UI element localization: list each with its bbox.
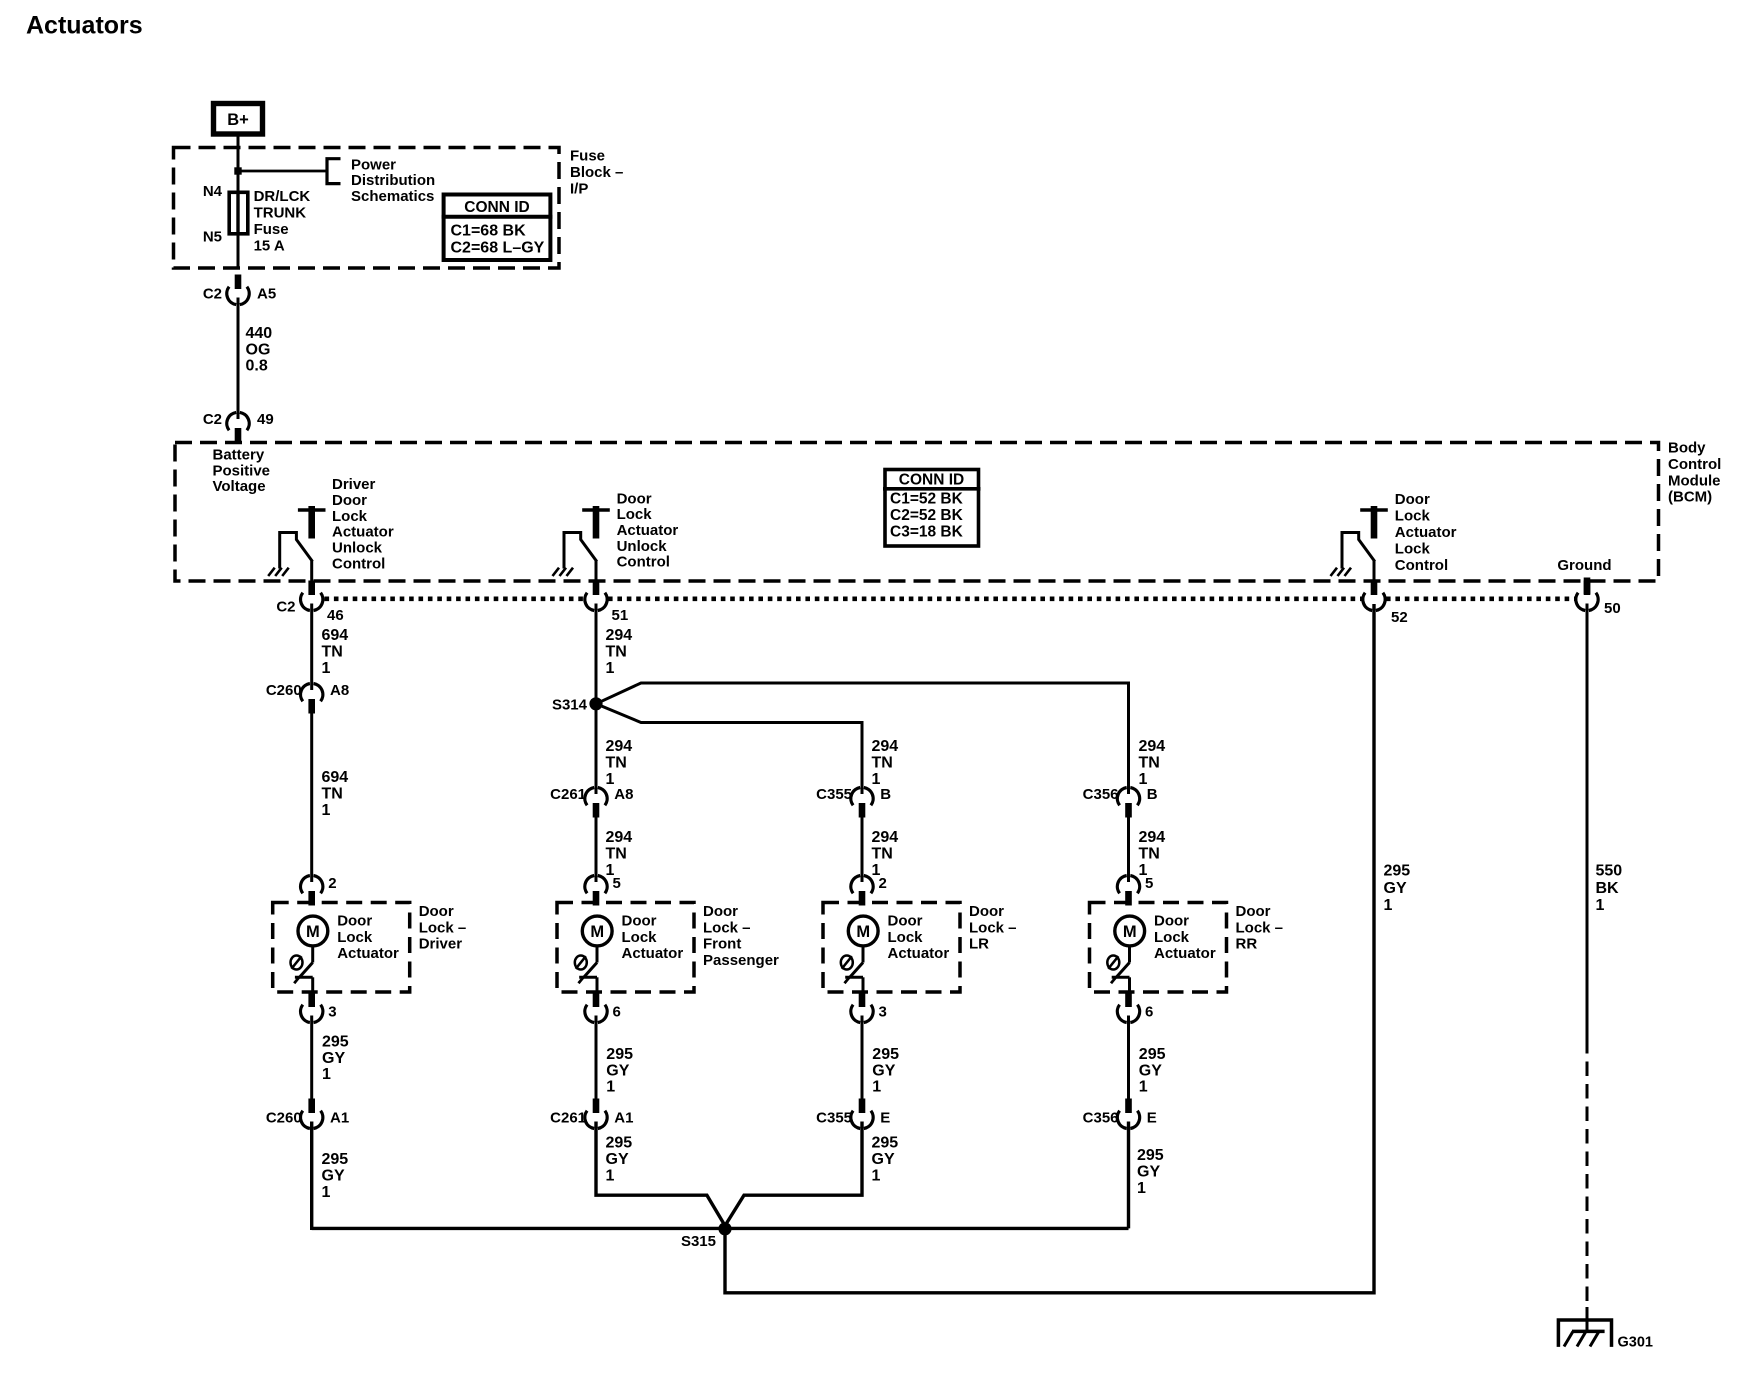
svg-text:TN: TN [606, 755, 627, 772]
svg-text:Lock –: Lock – [1236, 919, 1284, 936]
svg-text:294: 294 [1139, 829, 1166, 846]
svg-text:Door: Door [888, 913, 923, 930]
svg-text:15 A: 15 A [254, 238, 285, 255]
svg-text:E: E [880, 1110, 890, 1127]
connector pin 6 (door lock actuator output) [593, 993, 600, 1008]
svg-text:GY: GY [1139, 1062, 1162, 1079]
wire 550 BK 1 (pin 50 to G301) [1586, 604, 1589, 1040]
svg-text:295: 295 [322, 1034, 349, 1051]
wire switch to box edge [311, 977, 314, 992]
svg-text:5: 5 [1145, 875, 1153, 892]
svg-text:GY: GY [606, 1151, 629, 1168]
svg-text:Actuator: Actuator [622, 945, 684, 962]
svg-text:S315: S315 [681, 1233, 716, 1250]
splice S314 [589, 697, 602, 710]
wire fuse to connector C2 A5 [237, 234, 240, 269]
svg-text:694: 694 [322, 769, 349, 786]
wire motor to switch [311, 946, 314, 963]
svg-text:TN: TN [872, 846, 893, 863]
svg-text:C260: C260 [266, 682, 302, 699]
svg-text:Control: Control [1668, 456, 1721, 473]
svg-text:294: 294 [872, 738, 899, 755]
svg-text:Lock: Lock [1395, 507, 1431, 524]
svg-text:Lock: Lock [1395, 541, 1431, 558]
svg-text:C355: C355 [816, 786, 852, 803]
svg-text:Control: Control [1395, 557, 1448, 574]
svg-text:295: 295 [606, 1046, 633, 1063]
wire 295 GY 1 (LR out) [861, 1016, 864, 1100]
svg-text:1: 1 [872, 771, 881, 788]
svg-text:295: 295 [1137, 1147, 1164, 1164]
svg-text:Positive: Positive [213, 462, 271, 479]
svg-text:Door: Door [1154, 913, 1189, 930]
svg-text:Control: Control [617, 554, 670, 571]
svg-text:C356: C356 [1083, 1110, 1119, 1127]
wire C261 A1 to S315 [596, 1122, 726, 1227]
connector pin 2 (door lock actuator input) [859, 891, 866, 906]
switch blade with position indicator [1107, 956, 1119, 970]
wire motor to switch [862, 946, 865, 963]
svg-text:1: 1 [872, 1079, 881, 1096]
wire switch to box edge [596, 977, 599, 992]
svg-text:294: 294 [872, 829, 899, 846]
connector C356 pin E [1125, 1099, 1132, 1114]
svg-text:295: 295 [322, 1151, 349, 1168]
svg-text:GY: GY [1137, 1164, 1160, 1181]
svg-text:3: 3 [879, 1004, 887, 1021]
svg-text:1: 1 [322, 660, 331, 677]
svg-text:CONN ID: CONN ID [464, 199, 529, 216]
svg-text:Unlock: Unlock [332, 540, 383, 557]
connector C2 pin 46 [308, 581, 315, 596]
svg-text:5: 5 [613, 875, 621, 892]
svg-text:295: 295 [1139, 1046, 1166, 1063]
svg-text:Unlock: Unlock [617, 538, 668, 555]
svg-text:TN: TN [1139, 846, 1160, 863]
svg-text:C2=68 L–GY: C2=68 L–GY [451, 240, 545, 257]
wire switch to box edge [1128, 977, 1131, 992]
motor M [582, 916, 612, 946]
svg-text:C356: C356 [1083, 786, 1119, 803]
svg-text:(BCM): (BCM) [1668, 489, 1712, 506]
wire S314 branch to C356 (RR) [596, 683, 1129, 794]
svg-text:3: 3 [328, 1004, 336, 1021]
switch blade with position indicator [291, 956, 303, 970]
svg-text:Ground: Ground [1557, 557, 1611, 574]
connector C2 pin A5 [235, 275, 242, 290]
svg-text:50: 50 [1604, 600, 1621, 617]
svg-text:Passenger: Passenger [703, 952, 779, 969]
svg-text:Door: Door [969, 903, 1004, 920]
svg-text:A1: A1 [614, 1110, 633, 1127]
svg-text:C1=68 BK: C1=68 BK [451, 223, 527, 240]
svg-text:C355: C355 [816, 1110, 852, 1127]
wire 694 TN 1 (pin 46 to C260 A8) [310, 604, 313, 691]
svg-text:Actuator: Actuator [617, 522, 679, 539]
svg-text:Door: Door [617, 490, 652, 507]
wire motor to switch [1128, 946, 1131, 963]
svg-text:M: M [1123, 923, 1137, 941]
svg-text:GY: GY [872, 1151, 895, 1168]
svg-text:M: M [856, 923, 870, 941]
svg-text:A1: A1 [330, 1110, 349, 1127]
svg-text:CONN ID: CONN ID [899, 472, 964, 489]
svg-text:DR/LCK: DR/LCK [254, 188, 311, 205]
svg-text:B: B [1147, 786, 1158, 803]
svg-text:Block –: Block – [570, 164, 623, 181]
svg-text:Door: Door [419, 903, 454, 920]
svg-text:Lock –: Lock – [419, 919, 467, 936]
svg-text:Door: Door [337, 913, 372, 930]
svg-text:G301: G301 [1618, 1335, 1653, 1351]
svg-text:Voltage: Voltage [213, 478, 266, 495]
door lock actuator unlock control driver [582, 508, 610, 511]
svg-text:C2=52 BK: C2=52 BK [890, 507, 964, 524]
svg-text:Actuator: Actuator [337, 945, 399, 962]
connector C2 pin 49 [235, 428, 242, 443]
fuse block I/P dashed box [174, 148, 560, 269]
svg-text:GY: GY [322, 1050, 345, 1067]
svg-text:1: 1 [1137, 1180, 1146, 1197]
driver door lock actuator unlock control driver [298, 508, 326, 511]
CONN ID table (BCM) [885, 470, 979, 547]
svg-text:Door: Door [703, 903, 738, 920]
B+ power symbol [214, 104, 263, 135]
svg-text:1: 1 [872, 1168, 881, 1185]
svg-text:C3=18 BK: C3=18 BK [890, 524, 964, 541]
svg-text:TN: TN [1139, 755, 1160, 772]
svg-text:1: 1 [1384, 897, 1393, 914]
svg-text:1: 1 [606, 1079, 615, 1096]
svg-text:TN: TN [606, 846, 627, 863]
ground stub inside BCM [1584, 578, 1591, 595]
svg-text:295: 295 [606, 1135, 633, 1152]
svg-text:Lock: Lock [1154, 929, 1190, 946]
wire C261 A8 to front passenger actuator [595, 817, 598, 882]
wire C356 B to RR actuator [1127, 817, 1130, 882]
connector pin 3 (door lock actuator output) [859, 993, 866, 1008]
svg-text:Power: Power [351, 157, 396, 174]
junction node on B+ feed [234, 167, 241, 174]
svg-text:1: 1 [606, 771, 615, 788]
svg-text:Driver: Driver [419, 936, 463, 953]
svg-text:Door: Door [622, 913, 657, 930]
svg-text:N5: N5 [203, 229, 222, 246]
svg-text:B+: B+ [227, 111, 249, 129]
svg-text:LR: LR [969, 936, 989, 953]
connector pin 51 [593, 581, 600, 596]
svg-text:A5: A5 [257, 286, 276, 303]
splice S315 [718, 1222, 731, 1235]
svg-text:A8: A8 [330, 682, 349, 699]
svg-text:Lock: Lock [888, 929, 924, 946]
svg-text:Fuse: Fuse [570, 148, 605, 165]
connector pin 5 (door lock actuator input) [593, 891, 600, 906]
svg-text:Control: Control [332, 556, 385, 573]
svg-text:N4: N4 [203, 183, 223, 200]
svg-text:C1=52 BK: C1=52 BK [890, 491, 964, 508]
svg-text:49: 49 [257, 411, 274, 428]
connector C261 pin A8 [593, 803, 600, 818]
svg-text:GY: GY [1384, 880, 1407, 897]
svg-text:TN: TN [606, 644, 627, 661]
svg-text:294: 294 [1139, 738, 1166, 755]
door lock actuator dashed box [823, 903, 960, 993]
svg-text:Driver: Driver [332, 476, 376, 493]
svg-text:2: 2 [328, 875, 336, 892]
svg-text:C261: C261 [550, 786, 586, 803]
svg-text:GY: GY [606, 1062, 629, 1079]
svg-text:6: 6 [613, 1004, 621, 1021]
svg-text:52: 52 [1391, 609, 1408, 626]
svg-text:Distribution: Distribution [351, 172, 435, 189]
connector C260 pin A8 [308, 699, 315, 714]
svg-text:Actuator: Actuator [1395, 524, 1457, 541]
svg-text:GY: GY [872, 1062, 895, 1079]
connector pin 3 (door lock actuator output) [308, 993, 315, 1008]
svg-text:A8: A8 [614, 786, 633, 803]
connector pin 5 (door lock actuator input) [1125, 891, 1132, 906]
svg-text:OG: OG [246, 341, 271, 358]
svg-text:Body: Body [1668, 440, 1706, 457]
svg-text:C2: C2 [203, 411, 222, 428]
wire switch to box edge [862, 977, 865, 992]
svg-text:1: 1 [606, 1168, 615, 1185]
svg-text:Battery: Battery [213, 447, 265, 464]
svg-text:S314: S314 [552, 697, 588, 714]
svg-text:E: E [1147, 1110, 1157, 1127]
BCM connector face dotted line [325, 596, 585, 601]
connector pin 50 (ground) [1584, 581, 1591, 596]
svg-text:Lock –: Lock – [703, 919, 751, 936]
wire bus to S315 [312, 1227, 1129, 1230]
svg-text:M: M [590, 923, 604, 941]
svg-text:Front: Front [703, 936, 741, 953]
svg-text:C261: C261 [550, 1110, 586, 1127]
svg-text:RR: RR [1236, 936, 1258, 953]
svg-text:Door: Door [1395, 491, 1430, 508]
svg-text:Door: Door [332, 492, 367, 509]
svg-text:Actuator: Actuator [332, 524, 394, 541]
wire C355 E to S315 [725, 1122, 863, 1227]
svg-text:46: 46 [327, 607, 344, 624]
motor M [1115, 916, 1145, 946]
svg-text:294: 294 [606, 627, 633, 644]
wire S314 down to C261 A8 [595, 704, 598, 794]
svg-text:Actuator: Actuator [1154, 945, 1216, 962]
off-page bracket power distribution schematics [327, 159, 341, 184]
connector C261 pin A1 [593, 1099, 600, 1114]
wire C355 B to LR actuator [861, 817, 864, 882]
svg-text:1: 1 [322, 802, 331, 819]
connector C356 pin B [1125, 803, 1132, 818]
wire 294 TN 1 (pin 51 to S314) [595, 604, 598, 705]
svg-text:1: 1 [1596, 897, 1605, 914]
ground G301 [1558, 1320, 1611, 1347]
svg-text:Door: Door [1236, 903, 1271, 920]
svg-text:Schematics: Schematics [351, 188, 434, 205]
wire S314 branch to C355 (LR) [596, 704, 862, 794]
svg-text:Lock: Lock [337, 929, 373, 946]
svg-text:Lock: Lock [332, 508, 368, 525]
svg-text:295: 295 [872, 1046, 899, 1063]
svg-text:TN: TN [322, 786, 343, 803]
wire S315 to pin 52 [725, 604, 1374, 1293]
connector C355 pin E [859, 1099, 866, 1114]
svg-text:C2: C2 [276, 599, 295, 616]
door lock actuator dashed box [1090, 903, 1227, 993]
svg-text:1: 1 [1139, 1079, 1148, 1096]
wire 295 GY 1 (front passenger out) [595, 1016, 598, 1100]
wire 694 TN 1 (C260 A8 to driver actuator) [310, 713, 313, 882]
svg-text:B: B [880, 786, 891, 803]
wire 295 GY 1 (RR out) [1127, 1016, 1130, 1100]
door lock actuator dashed box [273, 903, 410, 993]
door lock actuator lock control driver [1360, 508, 1388, 511]
motor M [298, 916, 328, 946]
svg-text:C2: C2 [203, 286, 222, 303]
wire 295 GY 1 (driver actuator out) [310, 1016, 313, 1100]
wire motor to switch [596, 946, 599, 963]
connector pin 6 (door lock actuator output) [1125, 993, 1132, 1008]
svg-text:Actuator: Actuator [888, 945, 950, 962]
svg-text:I/P: I/P [570, 180, 588, 197]
svg-text:694: 694 [322, 627, 349, 644]
switch blade with position indicator [841, 956, 853, 970]
wire C260 A1 down and across to S315 [310, 1122, 313, 1231]
svg-text:294: 294 [606, 738, 633, 755]
svg-text:6: 6 [1145, 1004, 1153, 1021]
svg-text:BK: BK [1596, 880, 1620, 897]
svg-text:TRUNK: TRUNK [254, 205, 307, 222]
wire to power distribution schematics [238, 170, 326, 173]
body control module BCM dashed box [175, 443, 1659, 582]
svg-text:Fuse: Fuse [254, 221, 289, 238]
wire B+ to fuse [237, 137, 240, 192]
svg-text:0.8: 0.8 [246, 358, 268, 375]
motor M [848, 916, 878, 946]
svg-text:Lock –: Lock – [969, 919, 1017, 936]
svg-text:440: 440 [246, 325, 273, 342]
connector pin 52 [1371, 581, 1378, 596]
connector C355 pin B [859, 803, 866, 818]
svg-text:550: 550 [1596, 863, 1623, 880]
connector pin 2 (door lock actuator input) [308, 891, 315, 906]
svg-text:Lock: Lock [617, 506, 653, 523]
door lock actuator dashed box [557, 903, 694, 993]
svg-text:1: 1 [606, 660, 615, 677]
svg-text:Module: Module [1668, 472, 1721, 489]
wire C356 E down to bus [1127, 1122, 1130, 1229]
fuse DR/LCK TRUNK 15 A [229, 192, 248, 234]
svg-text:C260: C260 [266, 1110, 302, 1127]
svg-text:295: 295 [1384, 863, 1411, 880]
svg-text:TN: TN [872, 755, 893, 772]
svg-text:M: M [306, 923, 320, 941]
svg-text:Lock: Lock [622, 929, 658, 946]
svg-text:1: 1 [322, 1066, 331, 1083]
svg-text:Actuators: Actuators [26, 12, 143, 40]
CONN ID table (fuse block) [444, 195, 551, 261]
svg-text:GY: GY [322, 1168, 345, 1185]
svg-text:1: 1 [322, 1184, 331, 1201]
svg-text:2: 2 [879, 875, 887, 892]
svg-text:295: 295 [872, 1135, 899, 1152]
svg-text:51: 51 [612, 607, 629, 624]
svg-text:TN: TN [322, 644, 343, 661]
switch blade with position indicator [575, 956, 587, 970]
connector C260 pin A1 [308, 1099, 315, 1114]
svg-text:294: 294 [606, 829, 633, 846]
wire 440 OG 0.8 [237, 298, 240, 420]
